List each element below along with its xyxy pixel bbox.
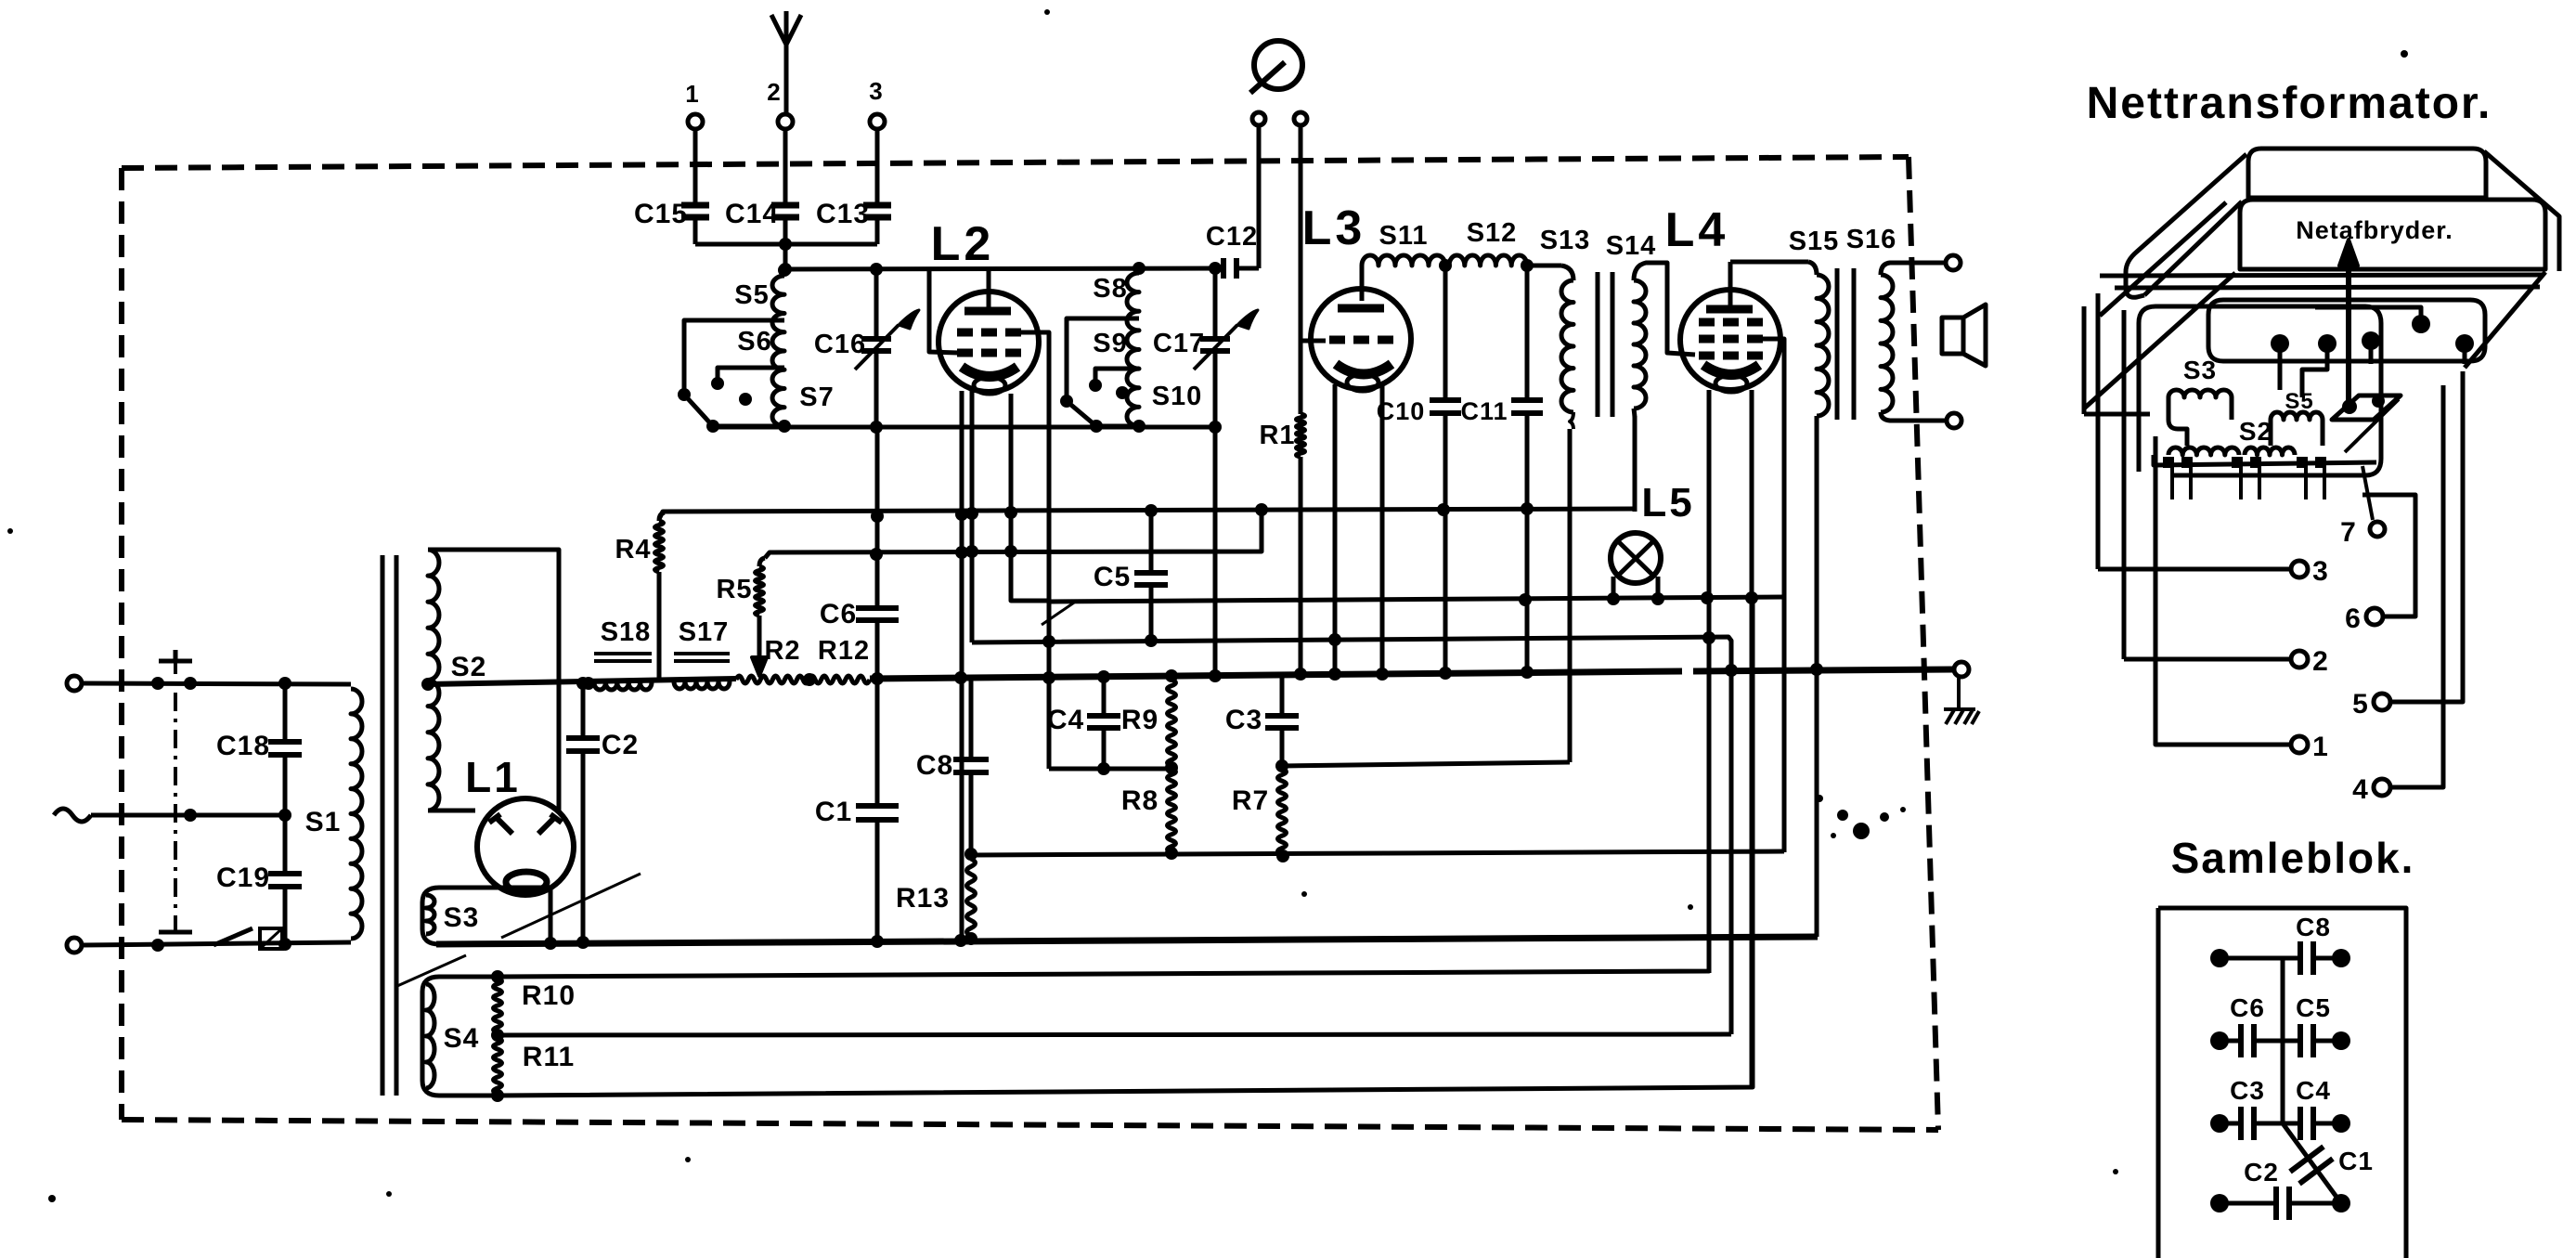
heater winding S4 [422,977,498,1096]
svg-text:C3: C3 [2230,1076,2265,1105]
wire S2 top to L1 anode [428,550,559,811]
svg-text:S3: S3 [2183,356,2217,384]
svg-text:R7: R7 [1232,785,1269,816]
wire terminal1 to C15 [693,129,698,205]
wire terminal2 to C14 [783,129,788,205]
svg-text:L1: L1 [465,753,521,801]
wire jog to L2 grid [929,269,958,353]
chassis deck edges [2100,275,2544,276]
svg-text:C1: C1 [2338,1147,2374,1175]
long chassis diagonals [2084,273,2235,414]
capacitor C8 [969,677,974,759]
pilot lamp L5 [1611,533,1661,583]
phono terminal b [1294,112,1307,125]
wire C16 rail to C6 [875,427,880,554]
connector dots upper [2271,334,2289,353]
capacitor C6 [875,554,880,608]
wire L2 screen exit [1018,332,1049,602]
svg-text:L2: L2 [931,217,995,271]
terminal strip [2154,455,2376,465]
ground symbol [1944,677,1979,724]
coil S13 [1561,266,1573,280]
svg-text:S8: S8 [1093,274,1127,304]
terminal 7 [2362,466,2373,520]
svg-text:L3: L3 [1302,201,1366,255]
speaker output terminal top [1946,255,1961,270]
output transformer core [1835,268,1840,420]
resistor R5 chain with arrow [759,558,765,566]
svg-text:C16: C16 [814,330,866,359]
wire L4 anode to S15 [1728,262,1733,305]
svg-text:C12: C12 [1206,222,1258,252]
wire C15 bottom [693,217,698,244]
wire phono a down [1257,125,1262,268]
svg-text:3: 3 [2312,556,2329,587]
coil S15 [1808,262,1817,275]
HT secondary S2 [428,550,439,811]
resistor R9 [1168,680,1176,766]
svg-text:S17: S17 [679,617,730,647]
wire cathode bus [971,851,1784,855]
filament winding S3 [422,888,551,944]
ink specks [1816,795,1823,802]
wire mains bottom [82,942,351,945]
svg-text:6: 6 [2345,603,2362,634]
svg-text:R9: R9 [1121,705,1159,735]
selector rhombus [2332,396,2401,420]
variable capacitor C16 [861,336,891,342]
svg-text:C4: C4 [2296,1076,2331,1105]
L4 legs [1707,390,1712,973]
svg-text:1: 1 [2312,732,2329,762]
terminal 1 [688,114,703,129]
svg-text:S2: S2 [2239,417,2272,446]
switch arrow [2346,260,2351,406]
svg-text:L5: L5 [1641,480,1694,525]
svg-text:S5: S5 [2285,389,2313,414]
capacitor C19 [283,815,288,874]
loudspeaker [1942,318,1963,354]
svg-text:C14: C14 [725,199,779,229]
svg-text:C2: C2 [2244,1158,2279,1187]
mains plug dash-dot [174,655,177,936]
svg-text:7: 7 [2340,517,2357,548]
svg-text:C3: C3 [1225,705,1262,735]
variable capacitor C17 [1200,336,1230,342]
svg-text:R10: R10 [522,980,576,1011]
svg-text:C8: C8 [2296,913,2331,941]
L2 cathode legs [960,391,964,940]
svg-text:C6: C6 [2230,993,2265,1022]
svg-text:S13: S13 [1540,226,1591,255]
wire S14 grid feed to L4 [1663,263,1695,355]
svg-text:R12: R12 [818,636,870,666]
wire C12 to phono [1236,266,1259,271]
svg-text:C2: C2 [602,730,639,760]
resistor R11 [494,1038,502,1094]
band switch frame for S8-S10 [1067,318,1139,426]
wire main bus left [428,679,736,684]
svg-text:C11: C11 [1460,397,1508,425]
wire C14 bottom [783,217,788,244]
transformer body panel [2139,306,2381,475]
terminal 4 net [2374,779,2390,796]
wire terminal3 to C13 [875,129,880,205]
wire C16 to coil rail [874,351,879,427]
mains terminal bottom [67,938,82,953]
svg-text:C8: C8 [916,750,953,781]
svg-text:C19: C19 [216,862,270,893]
potentiometer R2 R12 [736,676,870,683]
svg-text:S6: S6 [737,327,771,357]
lamp legs [1612,577,1616,599]
terminal 5 net [2374,694,2390,710]
wire heater H9 [498,598,1709,977]
L3 legs [1333,384,1338,675]
svg-text:C6: C6 [820,599,857,629]
capacitor C14 [771,202,799,209]
Samleblok C3 C4 row [2210,1114,2229,1133]
wire L2 anode to top bus [987,269,991,309]
svg-text:3: 3 [869,77,883,105]
resistor R10 [494,979,502,1032]
resistor R7 [1278,769,1287,854]
resistor R8 [1168,769,1176,852]
capacitor C5 [1134,570,1168,576]
svg-text:R13: R13 [896,883,950,914]
switch lever diagonal [2345,399,2399,452]
terminal 1 net [2291,736,2308,753]
svg-text:S10: S10 [1152,382,1203,411]
capacitor C2 [581,683,586,738]
svg-text:C10: C10 [1377,397,1426,425]
wire stray slash 1 [501,874,641,938]
capacitor C11 chain [1525,266,1530,400]
svg-text:R4: R4 [615,535,651,564]
svg-text:C15: C15 [634,199,688,229]
svg-text:S3: S3 [444,902,480,933]
wire C3 junction to S13 return [1282,762,1570,766]
chassis enclosure dashed border [122,157,1909,168]
wire H1 screen feed [659,509,1635,519]
wire S13 bottom drop [1570,412,1573,429]
svg-text:1: 1 [685,80,699,108]
wire S12 to S13 [1527,264,1561,268]
wire H3 lamp feed [1049,597,1784,602]
svg-text:R8: R8 [1121,785,1159,816]
svg-text:Samleblok.: Samleblok. [2171,834,2415,882]
wire C13 bottom [875,217,880,244]
Netafbryder slab [2240,200,2545,269]
tap wire S9/S10 [1095,369,1139,381]
switch contact dot [739,393,752,406]
top slab right side face [2484,151,2559,271]
svg-text:R5: R5 [716,575,752,604]
wire stray slash 2 [397,955,466,986]
connector sub-panel [2208,300,2485,361]
transformer top slab [2248,149,2486,198]
mains switch [214,928,252,945]
deck right edge [2465,272,2545,368]
terminal 2 [778,114,793,129]
svg-text:S15: S15 [1789,227,1840,256]
svg-text:C18: C18 [216,731,270,761]
capacitor C12 [1221,258,1226,279]
svg-text:C13: C13 [816,199,870,229]
svg-text:S9: S9 [1093,329,1127,358]
Samleblok box [2158,908,2406,1258]
coil S14 [1634,280,1646,409]
coil S2 net [2168,447,2239,455]
svg-text:C1: C1 [815,797,852,827]
wire mains top [82,683,351,684]
primary coil S1 [351,689,362,939]
speaker output terminal bottom [1947,413,1961,428]
chassis terminal right [1954,662,1969,677]
tube L3 [1311,289,1411,389]
tap wire S6/S7 [718,368,784,379]
svg-text:S11: S11 [1379,221,1429,251]
rectifier tube L1 [477,798,574,895]
tube L2 [938,292,1039,392]
svg-text:S5: S5 [734,280,769,310]
wire joining C13 C14 C15 bottoms [695,242,877,247]
capacitor C1 [875,679,880,806]
svg-text:S14: S14 [1606,231,1657,261]
capacitor C18 [283,684,288,742]
wire C16 vertical [874,269,879,339]
wire top grid bus [785,268,1223,269]
wire S2 bottom [428,809,475,813]
body rear frame [2098,293,2124,659]
resistor R1 [1299,341,1303,414]
wire C17 bottom [1213,351,1218,427]
svg-text:S1: S1 [305,807,342,837]
Samleblok C8 row [2210,949,2229,967]
svg-text:S4: S4 [444,1023,480,1054]
coil S16 [1881,275,1893,412]
wire C14 junction down to grid bus [783,244,788,269]
svg-text:2: 2 [2312,646,2329,677]
svg-text:Nettransformator.: Nettransformator. [2087,79,2492,128]
mains terminal top [67,676,82,691]
coil S3 net [2168,390,2232,397]
svg-text:C4: C4 [1047,705,1084,735]
wire C5 chain [1149,511,1154,573]
wire mains mid [91,813,285,818]
capacitor C13 [863,202,891,209]
Samleblok C2 row [2210,1194,2229,1213]
capacitor C15 [681,202,709,209]
IF transformer core 1 [1596,272,1600,417]
coil S12 [1449,255,1527,266]
svg-text:C5: C5 [2296,993,2331,1022]
capacitor C4 [1102,677,1107,716]
svg-text:S7: S7 [799,383,834,412]
svg-text:S16: S16 [1846,225,1897,254]
coil S11 [1362,255,1445,266]
band switch frame for S5-S7 [684,320,784,426]
AC symbol [54,809,91,822]
wire S15 bottom to ground bus [1815,416,1819,937]
svg-text:C5: C5 [1094,562,1131,592]
wire rail drop to HT bus [1213,427,1218,673]
resistor R4 chain [657,572,662,681]
Samleblok spine [2281,958,2285,1123]
wire L1 cathode leg [549,888,553,942]
coil S5 S6 S7 [772,276,784,426]
top slab left side face [2126,154,2246,297]
wire H2 from R5 [765,509,1262,558]
coil S8 S9 S10 [1127,273,1139,426]
transformer core [381,555,385,1096]
svg-text:Netafbryder.: Netafbryder. [2296,216,2453,244]
svg-text:5: 5 [2352,689,2369,720]
svg-text:S12: S12 [1467,218,1518,248]
svg-text:R1: R1 [1259,421,1295,450]
wire stray slash 3 [1042,601,1077,625]
wire heater H11 [498,598,1753,1096]
terminal 6 net [2366,608,2383,625]
wire L2 screen chain down [1047,602,1052,769]
wire L3 anode up [1360,266,1365,301]
svg-text:R2: R2 [764,636,800,666]
wire heater H10 [498,1034,1731,1035]
L2 heater leg [1011,394,1049,601]
wire C17 vertical top [1213,268,1218,339]
capacitor C3 [1280,675,1285,716]
capacitor C10 chain [1443,266,1448,400]
antenna [771,11,801,115]
wire main bus right [870,671,1682,679]
Samleblok C6 C5 row [2210,1031,2229,1050]
coil S17 [674,681,730,689]
terminal 3 net [2291,561,2308,577]
svg-text:4: 4 [2352,774,2369,805]
svg-text:2: 2 [767,78,781,106]
svg-text:C17: C17 [1153,329,1205,358]
phono terminal a [1252,112,1265,125]
switch contact dot 2 [1116,386,1129,399]
phono pickup [1254,41,1302,89]
wire C4/R9 bottoms [1049,767,1171,772]
wire ground bus [436,937,1818,944]
tube L4 [1680,290,1780,390]
Samleblok C1 diagonal [2283,1123,2341,1203]
wire S14 bottom to H1 [1634,409,1635,418]
svg-text:S18: S18 [601,617,652,647]
wire H4 bias [972,637,1731,1034]
terminal 3 [870,114,885,129]
connector stubs [2280,307,2465,397]
wire L4 screen drop [1762,339,1784,852]
resistor R13 [967,859,976,936]
svg-text:S2: S2 [451,652,487,682]
wire coil ground rail [713,425,1215,430]
coil S18 [594,682,652,690]
terminal 2 net [2291,651,2308,668]
wire phono b down to L3 grid [1301,125,1326,341]
svg-text:R11: R11 [523,1042,575,1072]
coil S5 net [2271,412,2323,420]
svg-text:L4: L4 [1665,203,1729,257]
